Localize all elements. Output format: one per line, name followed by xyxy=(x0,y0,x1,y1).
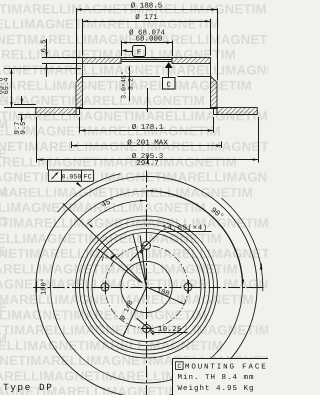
dim 148 arrow xyxy=(123,331,126,336)
section flange left (hatched) xyxy=(83,58,122,64)
section drum wall left (hatched) xyxy=(76,64,83,108)
45deg arc xyxy=(88,201,147,224)
svg-text:65.4: 65.4 xyxy=(3,78,11,95)
svg-text:M: M xyxy=(0,331,7,346)
section flange right (hatched) xyxy=(172,58,211,64)
dim 65.6 ext lines xyxy=(4,68,81,70)
svg-text:9.5: 9.5 xyxy=(20,122,28,135)
vertical centerline xyxy=(146,171,148,395)
svg-text:Ø 201 MAX: Ø 201 MAX xyxy=(127,139,168,148)
dim 9.7 ext xyxy=(14,104,36,106)
svg-text:C: C xyxy=(167,81,172,89)
svg-text:MAGNETIMARELLIMAGNETIMARELLIMA: MAGNETIMARELLIMAGNETIMARELLIMAGNETIM xyxy=(0,63,268,78)
svg-text:Weight 4.95 Kg: Weight 4.95 Kg xyxy=(178,384,255,393)
circle r96 xyxy=(51,191,243,383)
svg-text:180°: 180° xyxy=(40,278,48,295)
svg-text:Min. TH 8.4 mm: Min. TH 8.4 mm xyxy=(178,373,255,382)
bottom hole tick xyxy=(141,328,154,330)
svg-text:3.2: 3.2 xyxy=(128,78,136,90)
FC leader xyxy=(47,160,49,170)
bolt hole right xyxy=(184,283,192,291)
datum C leader xyxy=(168,68,170,78)
7deg arc xyxy=(111,254,116,259)
180deg tick xyxy=(36,282,38,293)
dim Ø295.3 ext xyxy=(36,117,38,163)
dim Ø188.5 ext lines xyxy=(76,8,78,80)
circle r67 xyxy=(80,220,214,354)
datum F leader xyxy=(127,51,133,53)
chamfer leaders xyxy=(129,67,131,102)
svg-text:0.050: 0.050 xyxy=(62,174,82,181)
svg-text:E: E xyxy=(0,300,7,315)
svg-text:6.5: 6.5 xyxy=(40,40,48,53)
horizontal centerline xyxy=(33,287,264,289)
datum C box xyxy=(163,78,176,90)
flange bottom ext xyxy=(42,63,83,65)
svg-text:C: C xyxy=(177,363,181,370)
svg-text:Ø 171: Ø 171 xyxy=(135,13,158,22)
dim Ø178.1 line xyxy=(80,130,214,132)
label 14.65 underline xyxy=(161,231,212,233)
dim Ø295.3 line xyxy=(37,159,258,161)
section plate inner lip left xyxy=(79,108,81,115)
svg-text:MAGNETIMARELLIMAGNETIMARELLIMA: MAGNETIMARELLIMAGNETIMARELLIMAGNETIM xyxy=(0,17,220,32)
outer circle xyxy=(36,176,257,395)
circle r58.5 xyxy=(88,229,205,346)
svg-text:MAGNETIMARELLIMAGNETIMARELLIMA: MAGNETIMARELLIMAGNETIMARELLIMAGNETIM xyxy=(0,185,253,200)
section friction plate left (hatched) xyxy=(36,108,76,115)
reference arc right xyxy=(221,198,263,291)
bolt hole top xyxy=(143,242,151,250)
bolt hole bottom xyxy=(143,325,151,333)
svg-text:FC: FC xyxy=(84,174,92,182)
center bore circle xyxy=(121,261,172,312)
svg-text:MAGNETIMARELLIMAGNETIMARELLIMA: MAGNETIMARELLIMAGNETIMARELLIMAGNETIM xyxy=(0,246,268,261)
dim Ø171 line xyxy=(83,21,211,23)
dim 9.7 line+arrows xyxy=(21,96,23,104)
watermark darker letters xyxy=(0,92,8,346)
svg-text:MAGNETIMARELLIMAGNETIMARELLIMA: MAGNETIMARELLIMAGNETIMARELLIMAGNETIM xyxy=(0,154,237,169)
dim 6.5 line+arrows xyxy=(46,39,48,58)
svg-text:MAGNETIMARELLIMAGNETIMARELLIMA: MAGNETIMARELLIMAGNETIMARELLIMAGNETIM xyxy=(0,124,221,139)
label 10.25 leader xyxy=(137,318,155,332)
svg-text:F: F xyxy=(137,49,141,57)
circle r63 xyxy=(84,224,210,350)
datum F box xyxy=(133,46,146,57)
section plate inner lip right xyxy=(213,108,215,115)
bolt hole left xyxy=(101,283,109,291)
dim 65.6 line xyxy=(11,68,13,107)
note C box xyxy=(176,362,184,370)
bore far edge lines xyxy=(121,57,172,59)
7deg second radial xyxy=(98,249,141,282)
dim Ø201 line xyxy=(71,145,222,147)
dim Ø201 ext xyxy=(71,142,73,149)
drum wall far rim line xyxy=(76,108,217,110)
reference arc left xyxy=(57,174,120,213)
svg-text:MAGNETIMARELLIMAGNETIMARELLIMA: MAGNETIMARELLIMAGNETIMARELLIMAGNETIM xyxy=(0,231,222,246)
svg-text:E: E xyxy=(0,244,6,259)
svg-text:MAGNETIMARELLIMAGNETIMARELLIMA: MAGNETIMARELLIMAGNETIMARELLIMAGNETIM xyxy=(0,93,205,108)
dim 108 line xyxy=(147,287,185,304)
runout FC frame xyxy=(48,170,93,181)
section drum wall right (hatched) xyxy=(211,64,218,108)
svg-text:E: E xyxy=(0,146,7,161)
svg-text:MAGNETIMARELLIMAGNETIMARELLIMA: MAGNETIMARELLIMAGNETIMARELLIMAGNETIM xyxy=(0,338,223,353)
svg-text:MAGNETIMARELLIMAGNETIMARELLIMA: MAGNETIMARELLIMAGNETIMARELLIMAGNETIM xyxy=(0,323,268,338)
90deg arc xyxy=(147,191,243,284)
centerline tick on dim xyxy=(147,156,149,164)
circle r71 xyxy=(76,216,218,358)
7deg inner lines xyxy=(140,235,146,287)
bolt circle (dash-dot) xyxy=(105,246,188,329)
right hole tick xyxy=(188,280,190,294)
0deg ext line xyxy=(247,287,264,289)
svg-text:7°: 7° xyxy=(101,256,109,263)
svg-text:MAGNETIMARELLIMAGNETIMARELLIMA: MAGNETIMARELLIMAGNETIMARELLIMAGNETIM xyxy=(0,216,268,231)
circle r54.5 drum bore xyxy=(92,233,201,342)
svg-text:M: M xyxy=(0,116,8,131)
drum interior ceiling line xyxy=(83,76,161,78)
dim 148 line xyxy=(123,287,146,336)
dim 6.5 ext xyxy=(42,57,83,59)
label 14.65 leader xyxy=(130,231,161,261)
dim Ø68 ext lines xyxy=(121,41,123,56)
title block panel xyxy=(172,358,268,395)
45deg radial line xyxy=(63,204,142,283)
dim Ø68 line xyxy=(121,42,172,44)
dim Ø188.5 line xyxy=(76,9,217,11)
svg-text:Type DP: Type DP xyxy=(3,382,53,393)
section friction plate right (hatched) xyxy=(217,108,257,115)
dim Ø178.1 ext xyxy=(79,117,81,133)
svg-text:G: G xyxy=(0,214,8,229)
left hole tick xyxy=(105,281,107,295)
svg-text:MOUNTING FACE: MOUNTING FACE xyxy=(185,362,268,371)
svg-text:3.0×45°: 3.0×45° xyxy=(121,71,128,99)
svg-text:M: M xyxy=(0,184,7,199)
dim Ø171 ext lines xyxy=(82,19,84,56)
